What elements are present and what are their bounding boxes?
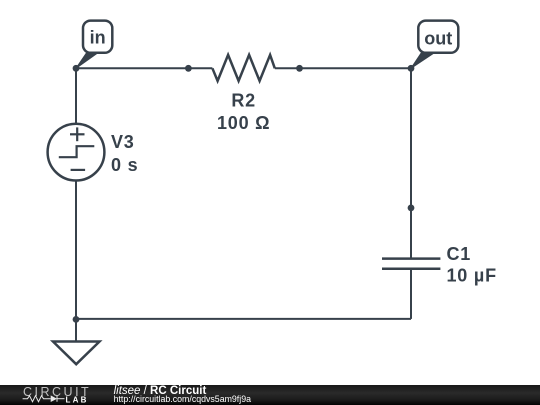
svg-text:http://circuitlab.com/cqdvs5am: http://circuitlab.com/cqdvs5am9fj9a (114, 394, 251, 404)
svg-text:0 s: 0 s (111, 155, 138, 175)
svg-text:V3: V3 (111, 132, 135, 152)
svg-text:R2: R2 (231, 91, 256, 111)
svg-text:out: out (424, 29, 452, 49)
svg-text:LAB: LAB (66, 396, 89, 405)
svg-text:10 µF: 10 µF (447, 265, 497, 285)
svg-text:in: in (90, 28, 106, 48)
svg-text:100 Ω: 100 Ω (217, 113, 270, 133)
svg-text:C1: C1 (447, 244, 472, 264)
